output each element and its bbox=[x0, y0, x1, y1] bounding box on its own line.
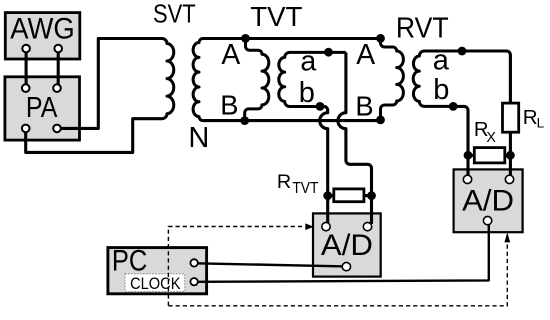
wire R_L bottom to R_X right node bbox=[509, 132, 512, 155]
svg-text:SVT: SVT bbox=[153, 1, 196, 29]
resistor R_L (vertical box) bbox=[503, 103, 519, 132]
terminal AWG left output bbox=[22, 45, 30, 53]
instrument box AWG (arbitrary waveform generator) bbox=[5, 13, 80, 59]
node b junction dot (TVT secondary bottom) bbox=[316, 102, 325, 111]
terminal A/D U1 bottom port bbox=[342, 262, 350, 270]
resistor R_X lead left bbox=[468, 154, 474, 157]
wire AWG left output to PA left input bbox=[25, 49, 28, 89]
svg-text:L: L bbox=[537, 115, 545, 130]
terminal PA top-left input bbox=[22, 84, 30, 92]
wire bottom rail N (SVT secondary bottom to node B bus) bbox=[204, 119, 381, 122]
terminal A/D U1 left input bbox=[322, 222, 330, 230]
node b junction dot (RVT secondary bottom) bbox=[449, 102, 458, 111]
terminal PA bottom-left output bbox=[22, 125, 30, 133]
terminal PA top-right input bbox=[53, 84, 61, 92]
instrument box PA (power amplifier) bbox=[5, 77, 80, 140]
svg-text:N: N bbox=[188, 122, 209, 154]
terminal AWG right output bbox=[54, 45, 62, 53]
svg-text:TVT: TVT bbox=[250, 1, 302, 32]
svg-text:PA: PA bbox=[26, 92, 58, 124]
instrument box A/D converter U2 (for RVT) bbox=[454, 169, 523, 232]
svg-text:R: R bbox=[523, 106, 538, 129]
svg-text:R: R bbox=[277, 171, 291, 193]
arrowhead into A/D U2 bottom side bbox=[504, 232, 510, 242]
node A junction dot on top rail (TVT) bbox=[241, 34, 250, 43]
svg-text:AWG: AWG bbox=[10, 12, 75, 45]
svg-text:A: A bbox=[356, 38, 375, 70]
svg-text:a: a bbox=[300, 45, 316, 77]
wire TVT node a down (hops over bottom rail), jog right, to R_TVT right bbox=[338, 52, 372, 224]
resistor R_TVT lead left bbox=[328, 194, 334, 197]
node a junction dot (TVT secondary top) bbox=[324, 48, 333, 57]
junction dot R_X right bbox=[506, 151, 515, 160]
terminal PA bottom-right output bbox=[53, 125, 61, 133]
junction dot R_X left bbox=[464, 151, 473, 160]
wire PA bottom-right output to SVT primary top bbox=[57, 39, 161, 129]
svg-text:X: X bbox=[486, 130, 496, 146]
svg-text:b: b bbox=[433, 74, 449, 106]
dashed clock line from PC to A/D U2 trigger (bottom route) bbox=[168, 241, 507, 306]
wire R_X left node down to A/D U2 left input bbox=[466, 155, 469, 179]
node B junction dot on bottom rail (RVT) bbox=[376, 116, 385, 125]
svg-text:CLOCK: CLOCK bbox=[130, 274, 181, 293]
svg-text:RVT: RVT bbox=[396, 13, 449, 45]
wire RVT node b right then down to R_X left bbox=[453, 106, 468, 155]
node B junction dot on bottom rail (TVT) bbox=[240, 116, 249, 125]
svg-text:a: a bbox=[433, 45, 450, 77]
transformer TVT secondary winding bbox=[279, 52, 346, 106]
terminal PC top port bbox=[190, 259, 197, 266]
resistor R_X (horizontal box) bbox=[474, 148, 505, 163]
terminal A/D U2 right input bbox=[505, 175, 513, 183]
svg-text:PC: PC bbox=[112, 244, 147, 277]
svg-text:B: B bbox=[355, 91, 373, 122]
terminal A/D U2 bottom port bbox=[483, 216, 491, 224]
wire RVT node a right then down to R_L top bbox=[462, 51, 510, 103]
wire PC top port to A/D U1 bottom port bbox=[196, 263, 346, 266]
instrument box PC bbox=[108, 248, 207, 294]
wire AWG right output to PA right input bbox=[57, 49, 60, 89]
transformer SVT secondary winding bbox=[193, 39, 206, 121]
junction dot R_TVT left bbox=[323, 191, 332, 200]
arrowhead into A/D U1 left side bbox=[305, 223, 314, 230]
terminal A/D U2 left input bbox=[463, 175, 471, 183]
svg-text:A/D: A/D bbox=[462, 185, 514, 218]
svg-text:A/D: A/D bbox=[321, 229, 373, 262]
svg-text:A: A bbox=[221, 38, 240, 70]
transformer TVT primary winding bbox=[245, 39, 269, 121]
terminal PC bottom port bbox=[190, 278, 197, 285]
wire R_X right node down to A/D U2 right input bbox=[509, 155, 512, 179]
wire TVT node b down (hops over bottom rail) to R_TVT left bbox=[320, 106, 328, 224]
transformer RVT primary winding bbox=[381, 38, 404, 120]
terminal A/D U1 right input bbox=[363, 222, 371, 230]
dashed clock line from PC up to A/D U1 trigger (with arrow) bbox=[168, 227, 304, 306]
svg-text:b: b bbox=[299, 77, 315, 109]
wire top rail (SVT secondary top to node A bus) bbox=[204, 37, 381, 40]
resistor R_TVT lead right bbox=[364, 194, 372, 197]
node A junction dot on top rail (RVT) bbox=[376, 34, 385, 43]
transformer RVT secondary winding bbox=[413, 51, 466, 106]
resistor R_TVT (horizontal box) bbox=[334, 189, 364, 202]
svg-text:B: B bbox=[220, 89, 238, 120]
junction dot R_TVT right bbox=[367, 191, 376, 200]
svg-text:TVT: TVT bbox=[292, 180, 319, 197]
resistor R_X lead right bbox=[505, 154, 511, 157]
wire PC bottom port to A/D U2 bottom port bbox=[196, 222, 489, 282]
box CLOCK inside PC bbox=[125, 274, 185, 292]
instrument box A/D converter U1 (for TVT) bbox=[313, 213, 381, 276]
wire PA bottom-left output to SVT primary bottom bbox=[26, 119, 161, 153]
node a junction dot (RVT secondary top) bbox=[458, 47, 467, 56]
transformer SVT primary winding bbox=[161, 39, 174, 119]
